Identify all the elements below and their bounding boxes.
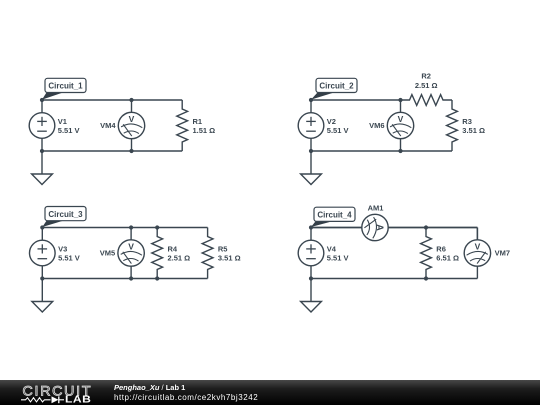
- junction R6 top: [424, 225, 428, 229]
- net flag Circuit_1: [42, 78, 86, 99]
- footer title text: [114, 383, 258, 402]
- svg-text:R5: R5: [218, 244, 228, 253]
- junction V3 bottom: [40, 276, 44, 280]
- junction R6 bottom: [424, 276, 428, 280]
- svg-text:V1: V1: [58, 117, 67, 126]
- junction VM4 bottom: [129, 149, 133, 153]
- svg-text:5.51 V: 5.51 V: [58, 126, 80, 135]
- junction R4 top: [155, 225, 159, 229]
- resistor R1 (1.51 ohm): [177, 100, 215, 151]
- resistor R4 (2.51 ohm): [152, 228, 190, 279]
- voltage source V3 (5.51 V): [30, 228, 80, 279]
- junction V1 bottom: [40, 149, 44, 153]
- wire circuit 4 top rail right: [388, 227, 477, 229]
- junction V4 top: [309, 225, 313, 229]
- svg-text:3.51 Ω: 3.51 Ω: [218, 254, 241, 263]
- junction V2 top: [309, 98, 313, 102]
- svg-text:R3: R3: [462, 117, 472, 126]
- resistor R6 (6.51 ohm): [421, 228, 459, 279]
- ground circuit 3: [32, 279, 53, 313]
- svg-text:3.51 Ω: 3.51 Ω: [462, 126, 485, 135]
- svg-text:http://circuitlab.com/ce2kvh7b: http://circuitlab.com/ce2kvh7bj3242: [114, 393, 258, 402]
- svg-text:VM4: VM4: [100, 121, 116, 130]
- resistor R2 (2.51 ohm): [401, 72, 453, 106]
- voltage source V4 (5.51 V): [298, 228, 348, 279]
- footer bar: [0, 380, 540, 405]
- wire circuit 2 bottom rail: [311, 150, 452, 152]
- junction VM4 top: [129, 98, 133, 102]
- svg-text:5.51 V: 5.51 V: [58, 254, 80, 263]
- voltmeter VM4: [100, 100, 145, 151]
- CircuitLab logo: [21, 383, 92, 405]
- ground circuit 2: [301, 151, 322, 185]
- ammeter AM1: [311, 204, 477, 241]
- junction V1 top: [40, 98, 44, 102]
- svg-text:V2: V2: [327, 117, 336, 126]
- wire circuit 1 top rail: [42, 99, 182, 101]
- svg-text:R6: R6: [436, 244, 446, 253]
- junction V2 bottom: [309, 149, 313, 153]
- svg-text:Penghao_Xu / Lab 1: Penghao_Xu / Lab 1: [114, 383, 185, 392]
- ground circuit 1: [32, 151, 53, 185]
- voltmeter VM7: [464, 228, 510, 279]
- svg-text:V: V: [129, 114, 135, 124]
- svg-text:5.51 V: 5.51 V: [327, 126, 349, 135]
- svg-text:VM7: VM7: [495, 249, 510, 258]
- wire circuit 4 right drop to VM7: [476, 228, 478, 241]
- resistor R5 (3.51 ohm): [202, 228, 240, 279]
- junction VM6 top: [398, 98, 402, 102]
- junction VM5 top: [129, 225, 133, 229]
- voltmeter VM5: [100, 228, 145, 279]
- svg-text:Circuit_3: Circuit_3: [48, 210, 83, 219]
- net flag Circuit_2: [311, 78, 357, 99]
- net flag Circuit_3: [42, 207, 86, 228]
- junction R4 bottom: [155, 276, 159, 280]
- wire circuit 4 bottom rail: [311, 278, 477, 280]
- wire circuit 3 bottom rail: [42, 278, 207, 280]
- svg-text:R2: R2: [421, 72, 431, 81]
- svg-text:5.51 V: 5.51 V: [327, 254, 349, 263]
- svg-text:Circuit_1: Circuit_1: [48, 82, 83, 91]
- svg-text:2.51 Ω: 2.51 Ω: [415, 81, 438, 90]
- svg-text:R4: R4: [168, 244, 178, 253]
- svg-text:1.51 Ω: 1.51 Ω: [193, 126, 216, 135]
- svg-text:6.51 Ω: 6.51 Ω: [436, 254, 459, 263]
- svg-text:V: V: [475, 242, 481, 252]
- svg-text:R1: R1: [193, 117, 203, 126]
- junction V4 bottom: [309, 276, 313, 280]
- junction V3 top: [40, 225, 44, 229]
- svg-text:VM6: VM6: [369, 121, 384, 130]
- svg-text:LAB: LAB: [65, 395, 91, 405]
- voltage source V2 (5.51 V): [298, 100, 348, 151]
- ground circuit 4: [301, 279, 322, 313]
- svg-text:VM5: VM5: [100, 249, 115, 258]
- svg-text:V3: V3: [58, 244, 67, 253]
- net flag Circuit_4: [311, 207, 355, 227]
- svg-text:Circuit_4: Circuit_4: [317, 211, 352, 220]
- wire circuit 1 bottom rail: [42, 150, 182, 152]
- resistor R3 (3.51 ohm): [447, 100, 485, 151]
- junction VM6 bottom: [398, 149, 402, 153]
- wire circuit 3 top rail: [42, 227, 207, 229]
- svg-text:V: V: [398, 114, 404, 124]
- svg-text:Circuit_2: Circuit_2: [319, 82, 354, 91]
- wire circuit 2 top rail: [311, 99, 401, 101]
- voltmeter VM6: [369, 100, 414, 151]
- svg-text:AM1: AM1: [368, 204, 384, 213]
- svg-text:V4: V4: [327, 244, 337, 253]
- voltage source V1 (5.51 V): [29, 100, 79, 151]
- svg-text:V: V: [128, 242, 134, 252]
- junction VM5 bottom: [129, 276, 133, 280]
- svg-text:2.51 Ω: 2.51 Ω: [168, 254, 191, 263]
- wire circuit 4 top rail left: [311, 227, 362, 229]
